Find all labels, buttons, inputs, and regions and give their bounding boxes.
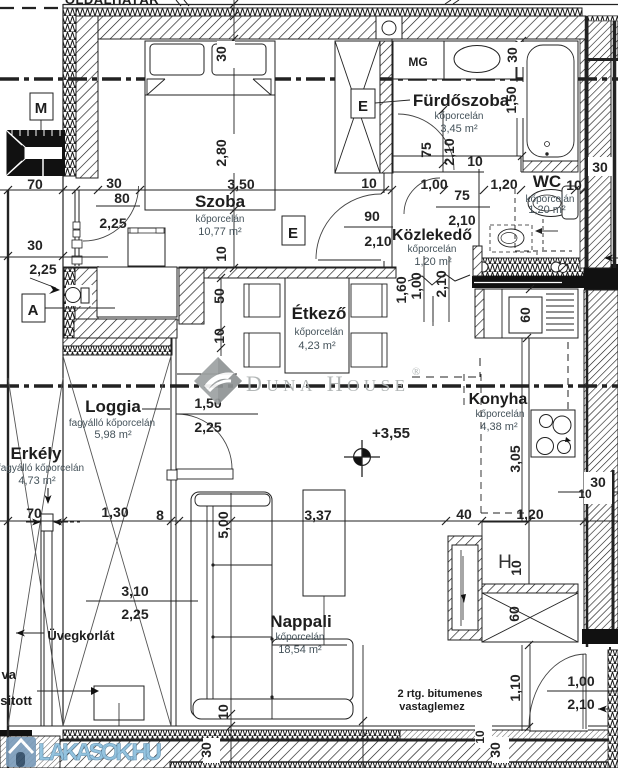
svg-text:3,45 m²: 3,45 m² — [440, 123, 478, 135]
svg-text:Fürdőszoba: Fürdőszoba — [413, 91, 510, 110]
svg-text:2,10: 2,10 — [567, 696, 594, 712]
svg-text:E: E — [358, 98, 368, 115]
svg-text:2,10: 2,10 — [364, 233, 391, 249]
svg-text:kőporcelán: kőporcelán — [276, 632, 325, 643]
svg-text:1,20: 1,20 — [516, 506, 543, 522]
svg-text:30: 30 — [198, 742, 214, 758]
svg-text:30: 30 — [213, 46, 229, 62]
svg-text:Erkély: Erkély — [10, 444, 62, 463]
svg-text:60: 60 — [517, 307, 533, 323]
svg-text:50: 50 — [211, 288, 227, 304]
svg-text:3,50: 3,50 — [227, 176, 254, 192]
svg-text:H: H — [498, 552, 512, 573]
svg-text:30: 30 — [27, 237, 43, 253]
svg-text:1,00: 1,00 — [420, 176, 447, 192]
svg-text:18,54 m²: 18,54 m² — [278, 644, 322, 656]
svg-text:fagyálló kőporcelán: fagyálló kőporcelán — [0, 463, 84, 474]
svg-text:Üvegkorlát: Üvegkorlát — [47, 628, 115, 643]
svg-text:2,80: 2,80 — [213, 139, 229, 166]
svg-text:4,73 m²: 4,73 m² — [18, 475, 56, 487]
svg-text:Loggia: Loggia — [85, 397, 141, 416]
svg-text:2 rtg. bitumenes: 2 rtg. bitumenes — [398, 688, 483, 700]
svg-text:sitott: sitott — [0, 693, 32, 708]
svg-text:10: 10 — [213, 246, 229, 262]
svg-text:kőporcelán: kőporcelán — [295, 327, 344, 338]
svg-text:Nappali: Nappali — [270, 612, 331, 631]
svg-text:5,98 m²: 5,98 m² — [94, 429, 132, 441]
svg-text:2,25: 2,25 — [99, 215, 126, 231]
svg-text:Konyha: Konyha — [469, 391, 528, 408]
svg-text:5,00: 5,00 — [215, 511, 231, 538]
svg-text:8: 8 — [156, 507, 164, 523]
svg-text:10: 10 — [361, 175, 377, 191]
svg-text:2,10: 2,10 — [433, 270, 449, 297]
svg-text:80: 80 — [114, 190, 130, 206]
svg-text:40: 40 — [456, 506, 472, 522]
svg-text:75: 75 — [418, 142, 434, 158]
svg-text:1,60: 1,60 — [393, 276, 409, 303]
svg-text:10: 10 — [473, 730, 487, 744]
svg-text:WC: WC — [533, 172, 561, 191]
svg-text:1,30: 1,30 — [101, 504, 128, 520]
svg-text:Közlekedő: Közlekedő — [392, 227, 472, 244]
svg-text:60: 60 — [506, 606, 522, 622]
svg-text:2,25: 2,25 — [121, 606, 148, 622]
svg-text:®: ® — [412, 366, 420, 378]
svg-text:4,23 m²: 4,23 m² — [298, 340, 336, 352]
svg-text:fagyálló kőporcelán: fagyálló kőporcelán — [69, 418, 155, 429]
svg-text:M: M — [35, 100, 48, 117]
svg-text:MG: MG — [408, 55, 427, 69]
svg-text:30: 30 — [592, 159, 608, 175]
svg-text:+3,55: +3,55 — [372, 425, 410, 442]
svg-text:LAKASOK.HU: LAKASOK.HU — [38, 739, 162, 766]
svg-text:3,10: 3,10 — [121, 583, 148, 599]
svg-text:30: 30 — [590, 474, 606, 490]
svg-text:30: 30 — [106, 175, 122, 191]
svg-text:30: 30 — [504, 47, 520, 63]
svg-text:1,20 m²: 1,20 m² — [414, 256, 452, 268]
svg-text:kőporcelán: kőporcelán — [435, 111, 484, 122]
svg-text:75: 75 — [454, 187, 470, 203]
svg-text:10: 10 — [578, 487, 592, 501]
svg-text:1,10: 1,10 — [507, 674, 523, 701]
svg-text:70: 70 — [26, 505, 42, 521]
svg-text:10: 10 — [215, 704, 231, 720]
svg-text:10: 10 — [566, 177, 582, 193]
svg-text:1,00: 1,00 — [567, 673, 594, 689]
svg-text:10: 10 — [211, 328, 227, 344]
svg-text:70: 70 — [27, 176, 43, 192]
svg-text:1,20 m²: 1,20 m² — [528, 204, 566, 216]
svg-text:30: 30 — [487, 742, 503, 758]
svg-text:E: E — [288, 225, 298, 242]
svg-text:va: va — [2, 667, 17, 682]
svg-text:1,00: 1,00 — [408, 272, 424, 299]
svg-text:vastaglemez: vastaglemez — [399, 701, 465, 713]
svg-text:2,10: 2,10 — [441, 138, 457, 165]
svg-text:3,37: 3,37 — [304, 507, 331, 523]
svg-text:2,25: 2,25 — [29, 261, 56, 277]
svg-text:OLDALHATÁR: OLDALHATÁR — [65, 0, 159, 7]
svg-text:kőporcelán: kőporcelán — [476, 409, 525, 420]
svg-text:4,38 m²: 4,38 m² — [480, 421, 518, 433]
svg-text:Étkező: Étkező — [292, 304, 347, 323]
svg-text:Szoba: Szoba — [195, 192, 246, 211]
svg-text:A: A — [28, 302, 39, 319]
svg-text:3,05: 3,05 — [507, 445, 523, 472]
svg-text:10: 10 — [467, 153, 483, 169]
svg-text:10,77 m²: 10,77 m² — [198, 226, 242, 238]
svg-text:2,10: 2,10 — [448, 212, 475, 228]
svg-text:2,25: 2,25 — [194, 419, 221, 435]
svg-text:kőporcelán: kőporcelán — [408, 244, 457, 255]
svg-text:90: 90 — [364, 208, 380, 224]
svg-text:kőporcelán: kőporcelán — [196, 214, 245, 225]
svg-text:1,20: 1,20 — [490, 176, 517, 192]
